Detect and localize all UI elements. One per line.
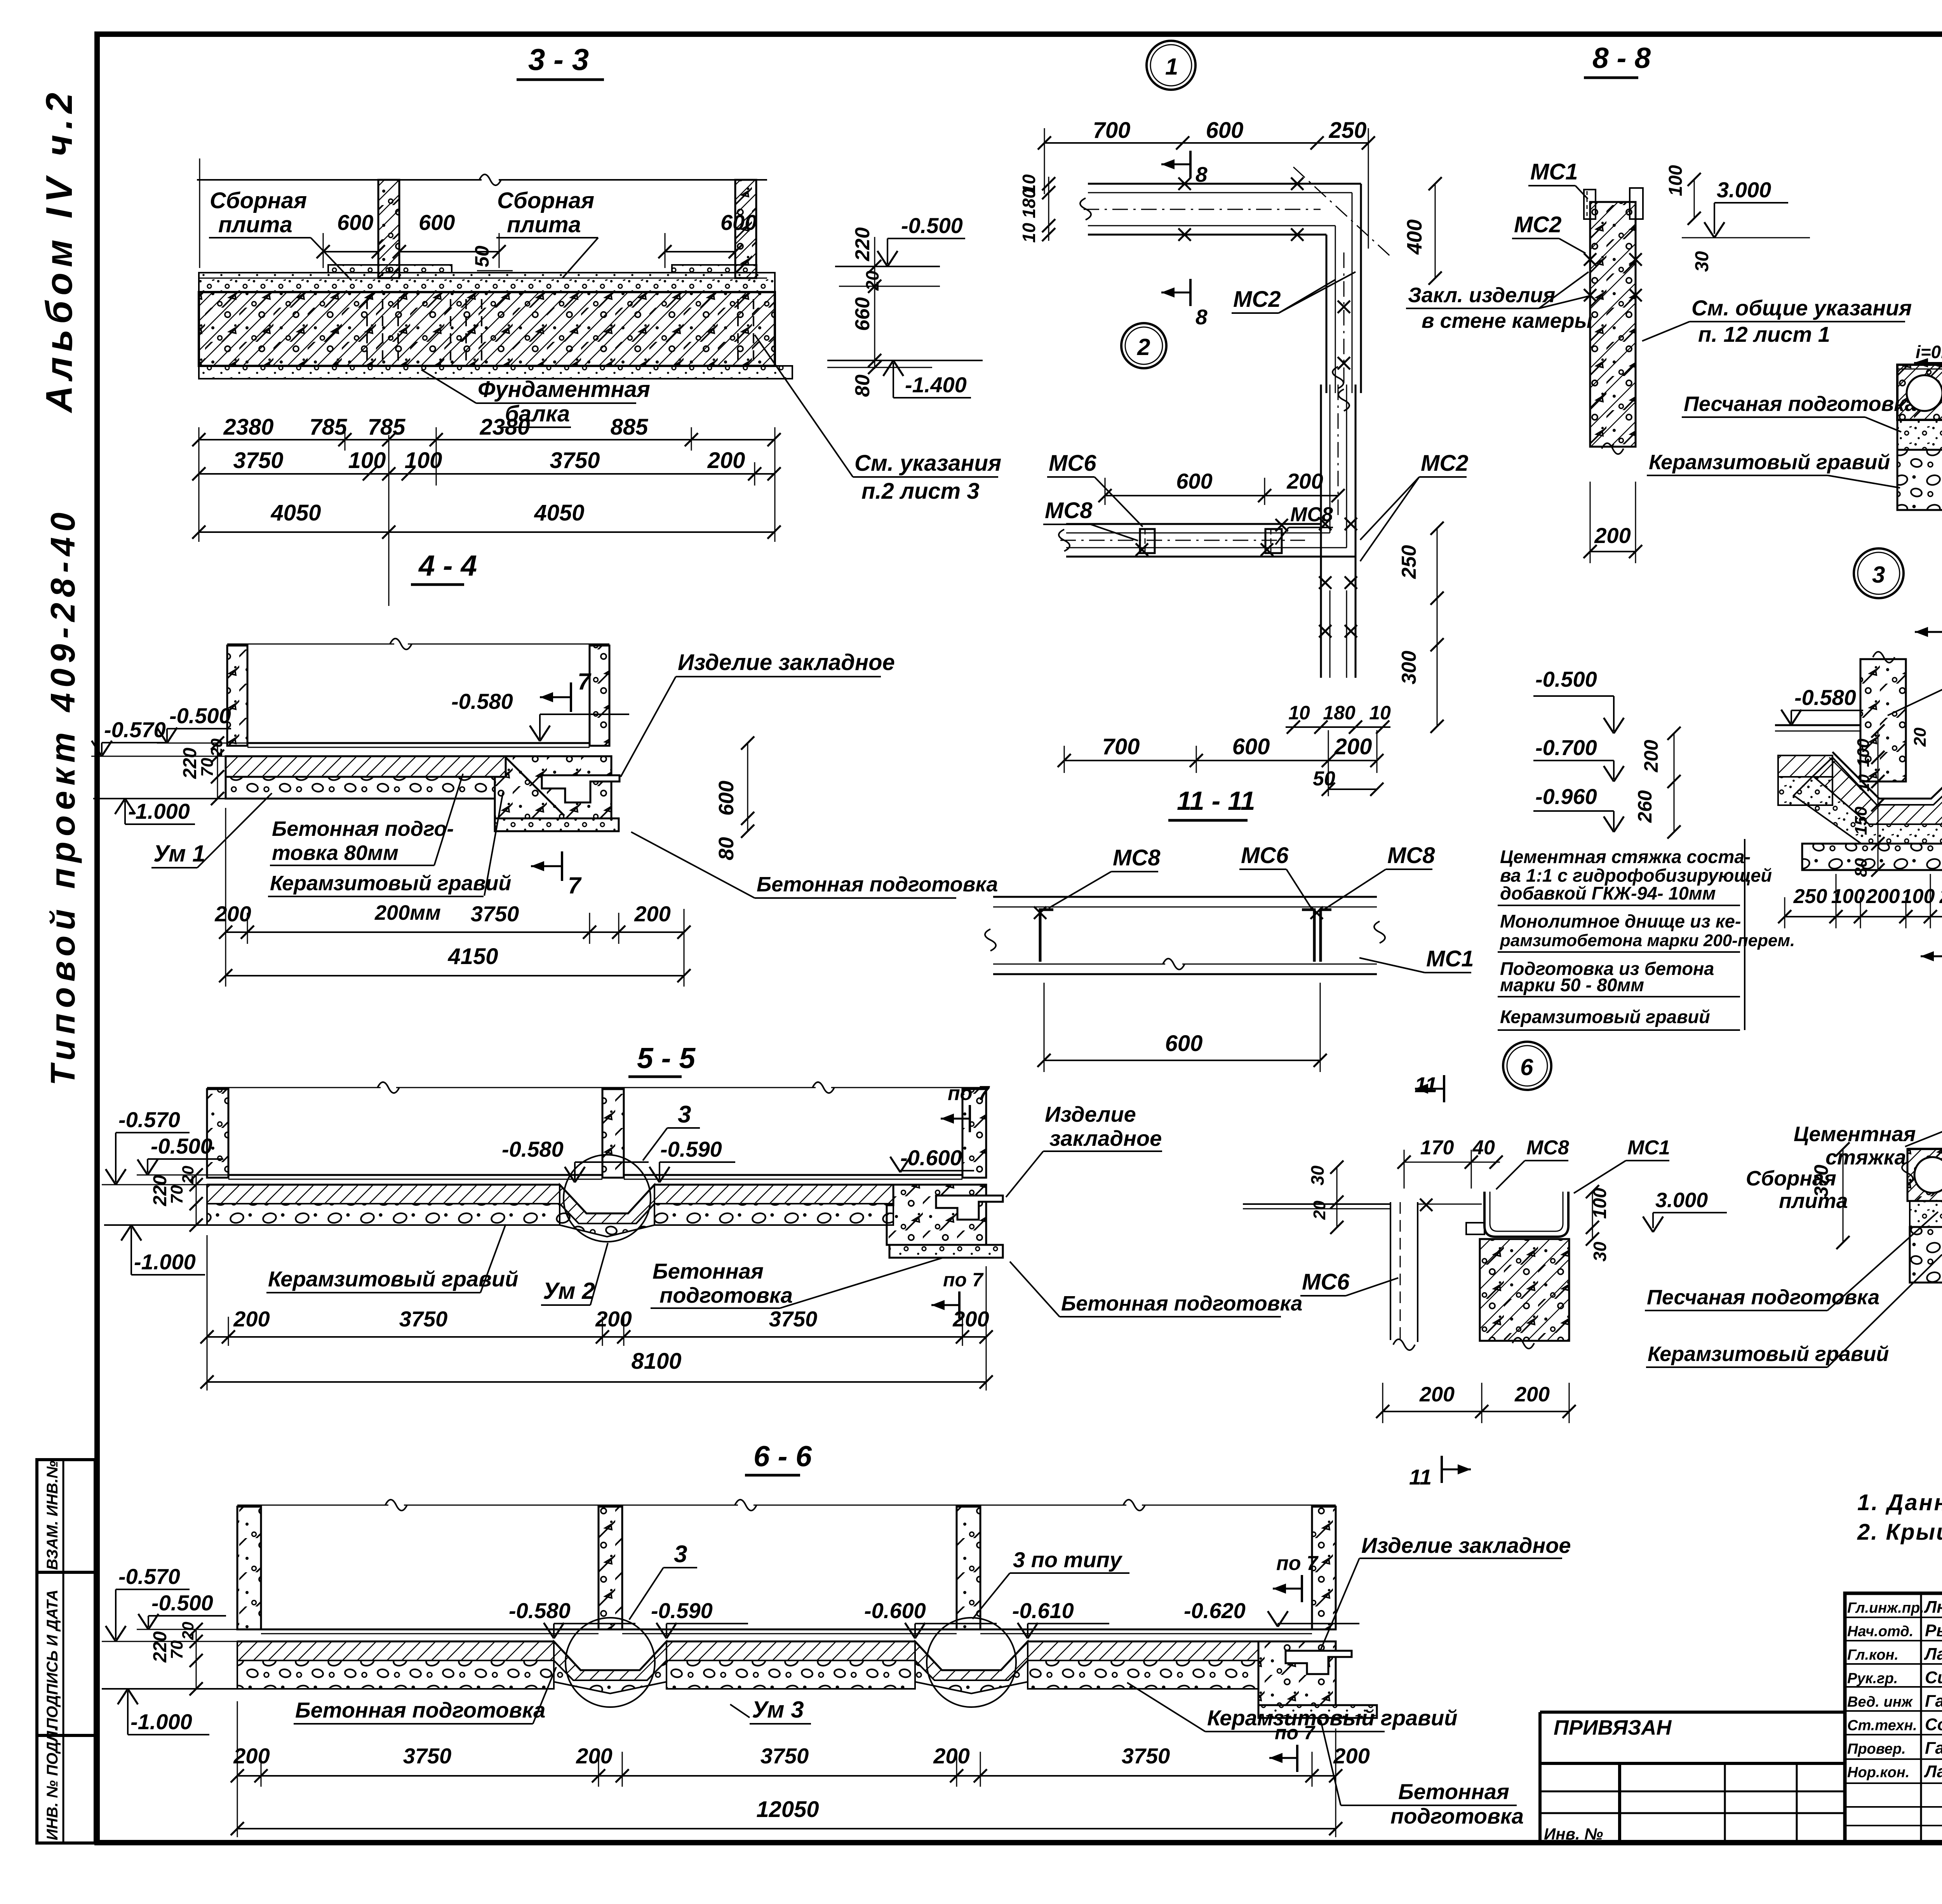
svg-text:Изделие закладное: Изделие закладное [678,650,895,675]
svg-text:Инв. №: Инв. № [1544,1825,1603,1843]
svg-text:600: 600 [1176,469,1212,493]
svg-text:-0.500: -0.500 [901,213,963,238]
svg-text:10: 10 [1019,223,1039,243]
svg-text:600: 600 [1232,734,1270,759]
svg-text:Ум 3: Ум 3 [752,1697,804,1723]
svg-text:70: 70 [167,1185,186,1204]
svg-text:Керамзитовый гравий: Керамзитовый гравий [1648,1342,1889,1366]
svg-text:100: 100 [348,448,386,473]
svg-text:8: 8 [1195,305,1208,329]
svg-text:Бетонная: Бетонная [653,1259,764,1283]
svg-text:600: 600 [1206,118,1244,143]
svg-text:20: 20 [179,1166,197,1184]
svg-text:Сборная: Сборная [497,188,594,213]
svg-text:250: 250 [1329,118,1367,143]
svg-text:Ум 2: Ум 2 [543,1278,595,1304]
svg-text:Фундаментная: Фундаментная [478,377,650,402]
svg-text:3750: 3750 [550,448,600,473]
svg-text:Синельникова: Синельникова [1925,1668,1942,1687]
svg-text:3.000: 3.000 [1655,1189,1708,1212]
svg-text:250: 250 [1398,545,1420,579]
svg-text:700: 700 [1102,734,1140,759]
svg-text:200: 200 [1333,1744,1369,1768]
svg-text:по 7: по 7 [948,1082,990,1105]
svg-text:180: 180 [1019,188,1039,218]
svg-text:МС6: МС6 [1049,451,1096,476]
svg-text:200: 200 [634,902,670,926]
svg-text:МС6: МС6 [1302,1269,1350,1295]
svg-text:Любавин: Любавин [1924,1598,1942,1617]
svg-text:3750: 3750 [399,1307,448,1331]
svg-text:плита: плита [218,212,292,237]
svg-text:3750: 3750 [760,1744,809,1768]
svg-text:3 по типу: 3 по типу [1013,1547,1123,1572]
svg-text:12050: 12050 [756,1797,819,1822]
svg-text:-0.500: -0.500 [151,1134,212,1158]
svg-text:-0.600: -0.600 [864,1598,926,1623]
svg-text:Бетонная подготовка: Бетонная подготовка [1061,1292,1302,1315]
svg-text:Альбом IV ч.2: Альбом IV ч.2 [38,87,80,413]
svg-text:Песчаная подготовка: Песчаная подготовка [1684,392,1916,416]
svg-text:Керамзитовый гравий: Керамзитовый гравий [1500,1006,1710,1027]
svg-text:1. Данный лист см. совместн: 1. Данный лист см. совместно с листами К… [1857,1490,1942,1515]
svg-text:по 7: по 7 [1275,1722,1316,1744]
svg-text:20: 20 [207,738,226,757]
svg-text:2: 2 [1137,334,1150,360]
svg-text:МС8: МС8 [1387,843,1435,868]
svg-text:30: 30 [1590,1241,1610,1262]
svg-text:7: 7 [568,872,582,898]
svg-text:МС2: МС2 [1514,212,1561,237]
svg-text:добавкой ГКЖ-94- 10мм: добавкой ГКЖ-94- 10мм [1500,883,1716,903]
svg-text:600: 600 [1165,1031,1203,1056]
svg-text:200: 200 [576,1744,612,1768]
svg-text:4150: 4150 [447,944,498,969]
svg-text:50: 50 [471,245,493,267]
svg-text:8 - 8: 8 - 8 [1592,42,1651,74]
svg-text:200: 200 [1286,469,1323,493]
svg-text:Керамзитовый гравий: Керамзитовый гравий [1207,1706,1457,1730]
svg-text:30: 30 [1692,251,1712,272]
svg-text:80: 80 [1852,858,1871,877]
svg-text:ВЗАМ. ИНВ.№: ВЗАМ. ИНВ.№ [44,1460,61,1570]
svg-text:220: 220 [851,227,874,261]
svg-text:-0.960: -0.960 [1535,784,1597,809]
svg-text:2380: 2380 [223,414,273,440]
svg-text:200: 200 [233,1307,270,1331]
svg-text:товка 80мм: товка 80мм [272,841,398,865]
svg-text:100: 100 [1665,165,1686,196]
svg-text:Провер.: Провер. [1847,1741,1906,1757]
svg-text:ПОДПИСЬ И ДАТА: ПОДПИСЬ И ДАТА [44,1589,61,1729]
svg-text:200: 200 [1419,1383,1455,1406]
svg-text:250: 250 [1793,885,1827,908]
svg-text:400: 400 [1403,219,1426,255]
svg-text:300: 300 [1398,651,1420,684]
svg-text:Сборная: Сборная [210,188,307,213]
svg-text:п.2 лист 3: п.2 лист 3 [861,479,980,504]
svg-text:-0.570: -0.570 [118,1107,180,1132]
svg-text:i=0.005: i=0.005 [1916,342,1942,362]
svg-text:200: 200 [707,448,745,473]
svg-text:200: 200 [214,902,251,926]
svg-text:3750: 3750 [233,448,283,473]
svg-text:8100: 8100 [631,1349,681,1374]
svg-text:700: 700 [1093,118,1131,143]
svg-text:5 - 5: 5 - 5 [637,1042,696,1074]
svg-text:2. Крышка камеры условно не: 2. Крышка камеры условно не показана, см… [1857,1519,1942,1545]
svg-text:-0.500: -0.500 [151,1591,213,1615]
svg-text:3 - 3: 3 - 3 [528,42,589,77]
svg-text:Керамзитовый гравий: Керамзитовый гравий [1649,451,1890,474]
svg-text:250: 250 [1939,885,1942,908]
svg-text:3.000: 3.000 [1717,178,1771,202]
svg-text:3750: 3750 [769,1307,818,1331]
svg-text:-1.000: -1.000 [131,1709,192,1734]
svg-text:-0.620: -0.620 [1184,1598,1246,1623]
svg-text:-0.580: -0.580 [1794,685,1856,710]
svg-text:-0.570: -0.570 [104,717,166,742]
svg-text:МС1: МС1 [1530,159,1578,184]
svg-text:660: 660 [851,297,874,331]
svg-text:Рыбкина: Рыбкина [1925,1621,1942,1640]
svg-text:Лапкин: Лапкин [1924,1645,1942,1664]
svg-text:785: 785 [310,414,348,440]
svg-text:Ст.техн.: Ст.техн. [1847,1718,1917,1734]
svg-text:11: 11 [1409,1465,1432,1489]
svg-text:Монолитное днище из ке-: Монолитное днище из ке- [1500,911,1741,931]
svg-text:260: 260 [1634,790,1656,823]
svg-text:-1.000: -1.000 [134,1250,196,1274]
svg-text:170: 170 [1420,1136,1454,1159]
svg-text:рамзитобетона марки 200-перем.: рамзитобетона марки 200-перем. [1500,931,1795,950]
svg-text:200: 200 [1640,740,1662,773]
svg-text:600: 600 [419,210,455,235]
svg-text:-0.700: -0.700 [1535,735,1597,760]
svg-text:-0.610: -0.610 [1012,1598,1074,1623]
svg-text:Лапкин: Лапкин [1924,1762,1942,1781]
svg-text:Гальперина: Гальперина [1925,1692,1942,1711]
svg-text:6: 6 [1520,1054,1533,1080]
svg-text:100: 100 [1854,738,1873,767]
svg-text:70: 70 [167,1640,186,1659]
svg-text:2380: 2380 [479,414,530,440]
svg-text:-0.590: -0.590 [651,1598,713,1623]
svg-text:в стене камеры: в стене камеры [1422,309,1592,332]
svg-text:3: 3 [1872,562,1885,588]
svg-text:200: 200 [1866,885,1900,908]
svg-text:Изделие закладное: Изделие закладное [1361,1533,1571,1558]
svg-text:Бетонная подготовка: Бетонная подготовка [295,1698,545,1722]
svg-text:МС6: МС6 [1241,843,1289,868]
svg-text:600: 600 [715,781,738,816]
svg-text:Типовой проект 409-28-40: Типовой проект 409-28-40 [44,507,82,1086]
svg-text:МС8: МС8 [1290,503,1333,526]
svg-text:Цементная стяжка соста-: Цементная стяжка соста- [1500,846,1751,867]
svg-text:3750: 3750 [1122,1744,1170,1768]
svg-text:-0.500: -0.500 [169,703,231,728]
svg-text:600: 600 [337,210,373,235]
svg-text:по 7: по 7 [1276,1552,1319,1575]
svg-text:885: 885 [611,414,649,440]
svg-text:МС8: МС8 [1045,498,1093,523]
svg-text:Песчаная подготовка: Песчаная подготовка [1647,1286,1879,1309]
svg-text:стяжка: стяжка [1825,1146,1906,1169]
svg-text:-0.580: -0.580 [509,1598,571,1623]
svg-text:-0.570: -0.570 [118,1564,180,1589]
svg-text:-0.500: -0.500 [1535,667,1597,691]
svg-text:Вед. инж: Вед. инж [1847,1694,1913,1710]
svg-text:Закл. изделия: Закл. изделия [1408,284,1555,307]
svg-text:180: 180 [1323,702,1356,724]
svg-text:закладное: закладное [1049,1126,1162,1150]
svg-text:Нор.кон.: Нор.кон. [1847,1765,1909,1781]
svg-text:МС8: МС8 [1526,1136,1569,1159]
svg-text:785: 785 [368,414,406,440]
svg-text:Гальперина: Гальперина [1925,1739,1942,1758]
svg-text:МС1: МС1 [1627,1136,1670,1159]
svg-text:Керамзитовый гравий: Керамзитовый гравий [270,872,511,895]
svg-text:200: 200 [1334,734,1372,759]
svg-text:марки 50 - 80мм: марки 50 - 80мм [1500,975,1644,995]
svg-text:30: 30 [1307,1165,1328,1185]
svg-text:ИНВ. № ПОДЛ.: ИНВ. № ПОДЛ. [44,1726,61,1840]
svg-text:20: 20 [1911,727,1930,747]
svg-text:-0.580: -0.580 [451,689,513,714]
svg-text:200: 200 [1514,1383,1550,1406]
svg-text:3: 3 [678,1101,691,1128]
svg-text:Нач.отд.: Нач.отд. [1847,1624,1913,1640]
svg-text:4050: 4050 [534,500,584,526]
svg-text:-1.000: -1.000 [128,799,190,823]
svg-text:200мм: 200мм [374,901,441,924]
svg-text:200: 200 [1594,523,1631,548]
svg-text:Бетонная подго-: Бетонная подго- [272,817,454,841]
svg-text:См. общие указания: См. общие указания [1691,296,1912,320]
svg-text:Цементная: Цементная [1794,1123,1916,1146]
svg-text:6 - 6: 6 - 6 [753,1440,812,1472]
svg-text:40: 40 [1472,1136,1495,1159]
svg-text:МС1: МС1 [1426,946,1474,971]
svg-text:370: 370 [1810,1164,1832,1197]
svg-text:-0.580: -0.580 [502,1137,564,1161]
svg-text:3: 3 [674,1541,687,1568]
svg-text:п. 12 лист 1: п. 12 лист 1 [1698,322,1830,346]
svg-text:7: 7 [578,668,592,694]
svg-text:по 7: по 7 [943,1269,984,1291]
svg-text:Бетонная: Бетонная [1398,1779,1509,1804]
svg-text:200: 200 [233,1744,270,1768]
svg-text:4 - 4: 4 - 4 [418,549,477,582]
svg-text:200: 200 [952,1307,989,1331]
svg-text:200: 200 [595,1307,632,1331]
svg-text:См. указания: См. указания [854,451,1001,476]
svg-text:Ум 1: Ум 1 [153,841,205,867]
svg-text:200: 200 [933,1744,969,1768]
svg-text:1: 1 [1165,54,1178,80]
svg-text:Бетонная подготовка: Бетонная подготовка [757,873,998,896]
svg-text:МС2: МС2 [1233,287,1281,312]
svg-text:Изделие: Изделие [1045,1102,1136,1126]
svg-text:150: 150 [1852,806,1871,835]
svg-text:МС2: МС2 [1421,451,1468,476]
svg-text:10: 10 [1369,702,1391,724]
svg-text:Гл.инж.пр.: Гл.инж.пр. [1847,1600,1924,1616]
svg-text:80: 80 [851,374,874,397]
svg-text:-0.590: -0.590 [660,1137,722,1161]
svg-text:подготовка: подготовка [1390,1804,1524,1828]
svg-text:3750: 3750 [471,902,519,926]
svg-text:80: 80 [715,837,738,860]
svg-text:3750: 3750 [403,1744,452,1768]
svg-text:Керамзитовый гравий: Керамзитовый гравий [268,1267,518,1291]
svg-text:Соболева: Соболева [1925,1715,1942,1734]
svg-text:МС8: МС8 [1113,845,1161,870]
svg-text:плита: плита [507,212,581,237]
svg-text:ПРИВЯЗАН: ПРИВЯЗАН [1554,1716,1672,1739]
svg-text:-1.400: -1.400 [905,372,967,397]
svg-text:Рук.гр.: Рук.гр. [1847,1671,1898,1687]
svg-text:11 - 11: 11 - 11 [1177,786,1255,816]
svg-text:600: 600 [720,210,757,235]
svg-text:4050: 4050 [270,500,321,526]
svg-text:подготовка: подготовка [660,1283,793,1307]
svg-text:Гл.кон.: Гл.кон. [1847,1647,1898,1663]
svg-text:10: 10 [1855,774,1872,792]
